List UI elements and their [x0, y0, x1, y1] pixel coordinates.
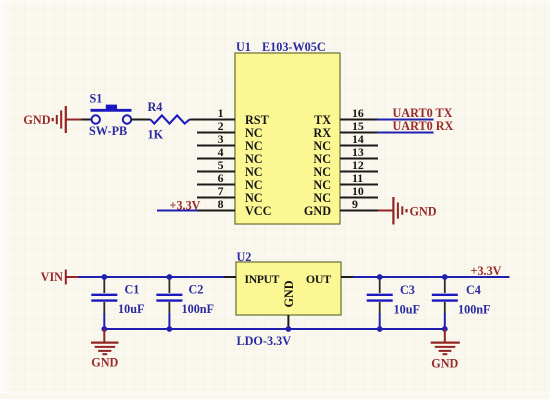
svg-text:E103-W05C: E103-W05C [262, 40, 326, 54]
junction C2 top [167, 274, 173, 280]
svg-text:100nF: 100nF [182, 302, 215, 316]
wire R4 to U1 pin 1 [190, 119, 199, 121]
U2 body [236, 262, 341, 315]
svg-text:U2: U2 [237, 250, 252, 264]
wire S1 to R4 [131, 119, 150, 121]
svg-text:S1: S1 [90, 92, 103, 106]
svg-text:NC: NC [245, 126, 263, 140]
junction C2 bottom [167, 326, 173, 332]
svg-text:VIN: VIN [41, 270, 64, 284]
earth ground (below C4) [431, 329, 460, 371]
svg-text:NC: NC [245, 178, 263, 192]
junction VIN/C1 top [101, 274, 107, 280]
svg-text:NC: NC [313, 152, 331, 166]
svg-text:6: 6 [218, 171, 224, 185]
junction C4 top [442, 274, 448, 280]
pin 9 GND [304, 197, 378, 218]
earth ground (below C1) [91, 329, 119, 370]
svg-text:+3.3V: +3.3V [170, 199, 201, 213]
junction C3 bottom [377, 326, 383, 332]
pin 12 NC [313, 158, 378, 179]
capacitor C1 10uF [91, 277, 144, 329]
capacitor C3 10uF [367, 277, 420, 329]
svg-text:VCC: VCC [245, 204, 271, 218]
svg-text:12: 12 [352, 158, 364, 172]
svg-text:RST: RST [245, 113, 269, 127]
wire ground bus (bottom) [104, 328, 445, 330]
pin 1 RST [197, 106, 269, 127]
svg-text:SW-PB: SW-PB [89, 124, 127, 138]
pin 10 NC [313, 184, 378, 205]
wire U2 OUT to +3.3V [353, 276, 510, 278]
svg-text:GND: GND [431, 357, 458, 371]
pin 4 NC [197, 145, 263, 166]
pin 11 NC [313, 171, 378, 192]
svg-text:7: 7 [218, 184, 224, 198]
svg-text:C2: C2 [189, 283, 204, 297]
svg-text:14: 14 [352, 132, 364, 146]
pin 3 NC [197, 132, 263, 153]
svg-text:NC: NC [245, 165, 263, 179]
pin 13 NC [313, 145, 378, 166]
svg-text:NC: NC [313, 191, 331, 205]
svg-text:10: 10 [352, 184, 364, 198]
svg-text:NC: NC [313, 178, 331, 192]
svg-text:C3: C3 [400, 283, 415, 297]
pin OUT [306, 272, 353, 286]
svg-text:C4: C4 [466, 283, 481, 297]
svg-text:1: 1 [218, 106, 224, 120]
svg-text:U1: U1 [236, 40, 251, 54]
svg-text:GND: GND [23, 113, 50, 127]
svg-text:10uF: 10uF [118, 302, 144, 316]
svg-text:R4: R4 [148, 100, 163, 114]
svg-text:C1: C1 [125, 283, 140, 297]
svg-text:5: 5 [218, 158, 224, 172]
svg-text:NC: NC [245, 152, 263, 166]
pin 16 TX [314, 106, 378, 127]
pin 6 NC [197, 171, 263, 192]
svg-text:1K: 1K [148, 128, 164, 142]
svg-text:+3.3V: +3.3V [471, 264, 502, 278]
U1 body [235, 53, 340, 224]
svg-text:GND: GND [282, 280, 296, 307]
IC U2 LDO [224, 250, 353, 329]
svg-text:13: 13 [352, 145, 364, 159]
junction C4 bottom [442, 326, 448, 332]
wire UART0 RX [377, 132, 434, 134]
svg-text:4: 4 [218, 145, 224, 159]
svg-text:UART0 RX: UART0 RX [393, 119, 454, 133]
svg-text:2: 2 [218, 119, 224, 133]
svg-text:INPUT: INPUT [245, 273, 280, 286]
svg-text:UART0 TX: UART0 TX [393, 106, 453, 120]
svg-text:16: 16 [352, 106, 364, 120]
svg-text:LDO-3.3V: LDO-3.3V [237, 334, 292, 348]
wire UART0 TX [377, 119, 434, 121]
pin 14 NC [313, 132, 378, 153]
pin 7 NC [197, 184, 263, 205]
switch S1 SW-PB [89, 92, 132, 138]
junction U2 GND [286, 326, 292, 332]
power port GND (U1 pin 9) [393, 197, 436, 225]
junction C3 top [377, 274, 383, 280]
svg-text:15: 15 [352, 119, 364, 133]
svg-text:NC: NC [313, 165, 331, 179]
pin 15 RX [313, 119, 378, 140]
pin 2 NC [197, 119, 263, 140]
pin INPUT [224, 273, 280, 286]
svg-text:NC: NC [313, 139, 331, 153]
wire +3.3V to U1 pin 8 [157, 210, 198, 212]
port VIN [41, 270, 79, 285]
wire VIN to U2 INPUT [79, 276, 225, 278]
wire GND to S1 [82, 119, 92, 121]
svg-text:GND: GND [91, 356, 118, 370]
svg-text:10uF: 10uF [394, 303, 420, 317]
svg-text:NC: NC [245, 139, 263, 153]
wire U1 pin 9 to GND [378, 210, 393, 212]
pin GND (vertical) [282, 280, 296, 329]
svg-text:9: 9 [352, 197, 358, 211]
IC U1 E103-W05C [197, 40, 378, 224]
svg-text:GND: GND [410, 205, 437, 219]
pin 5 NC [197, 158, 263, 179]
svg-text:11: 11 [352, 171, 363, 185]
svg-text:OUT: OUT [306, 272, 331, 286]
svg-text:TX: TX [314, 113, 331, 127]
power port GND (left of S1) [23, 106, 81, 133]
svg-text:100nF: 100nF [458, 303, 491, 317]
junction C1 bottom [101, 326, 107, 332]
pin 8 VCC [197, 197, 271, 218]
svg-text:8: 8 [218, 197, 224, 211]
svg-text:RX: RX [313, 126, 331, 140]
svg-text:3: 3 [218, 132, 224, 146]
capacitor C2 100nF [156, 277, 214, 329]
capacitor C4 100nF [432, 277, 491, 329]
svg-text:GND: GND [304, 204, 331, 218]
svg-text:NC: NC [245, 191, 263, 205]
resistor R4 1K [148, 100, 190, 142]
